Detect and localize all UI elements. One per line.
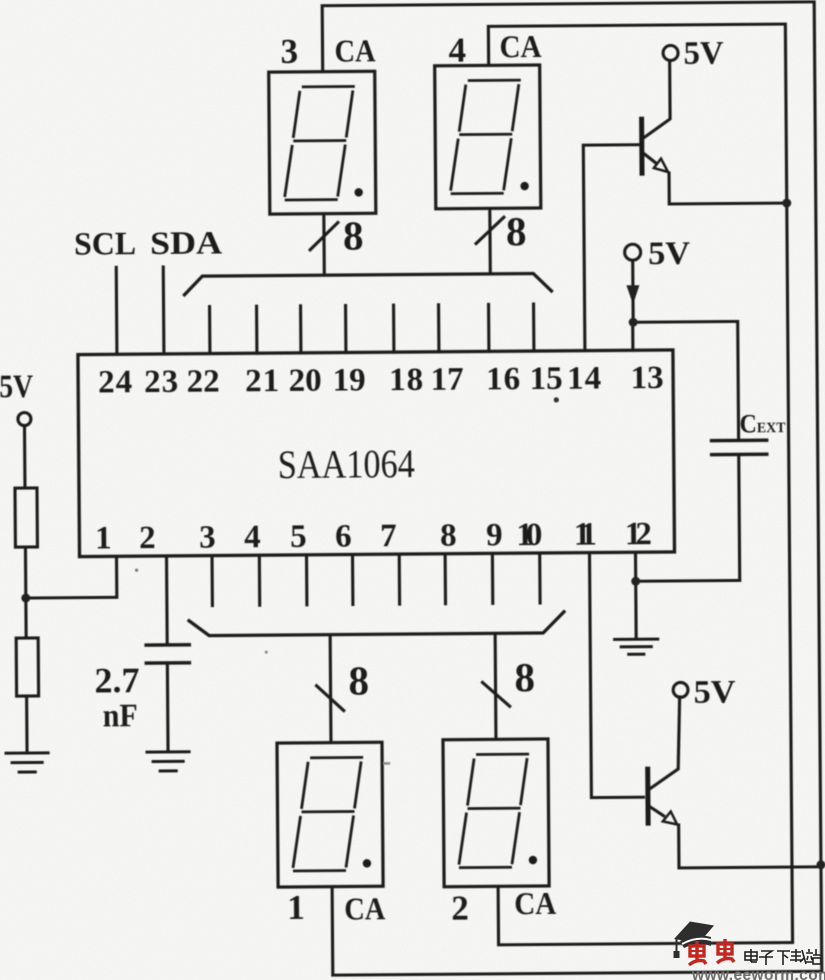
Q1 emitter with arrow	[643, 153, 656, 164]
svg-text:CA: CA	[499, 28, 541, 64]
wire: R2 to ground	[25, 696, 29, 751]
wire: pin12 node to CEXT bottom	[636, 579, 740, 583]
wire: pin 16 stub to top bus	[487, 304, 490, 351]
svg-text:8: 8	[440, 518, 457, 554]
bus width slash (8) display4	[476, 217, 504, 243]
wire: C1 to ground	[166, 663, 170, 750]
arrow into pin 13 node	[626, 285, 639, 304]
Q2 emitter with arrow	[650, 807, 663, 816]
display DS4 box	[435, 65, 541, 209]
svg-text:21: 21	[245, 363, 279, 399]
wire: pin 19 stub to top bus	[344, 306, 347, 353]
wire: pin 6 stub to bottom bus	[351, 556, 354, 604]
svg-text:15: 15	[529, 361, 562, 397]
ground GND1	[6, 753, 48, 772]
wire: pin 24 stub (SCL)	[115, 267, 119, 354]
svg-text:14: 14	[567, 361, 601, 397]
svg-text:23: 23	[144, 364, 178, 400]
svg-text:5V: 5V	[693, 674, 735, 710]
junction: Q2 emitter to CA1/CA3 rail	[816, 860, 825, 869]
wire: pin 11 down to transistor Q2 base	[590, 554, 644, 797]
wire: pin 7 stub to bottom bus	[398, 556, 401, 604]
IC U1 SAA1064 body	[78, 350, 675, 557]
svg-text:CA: CA	[344, 890, 385, 926]
svg-text:6: 6	[335, 518, 352, 554]
display DS2 box	[443, 739, 549, 887]
svg-text:4: 4	[244, 519, 261, 555]
svg-text:nF: nF	[103, 698, 138, 734]
svg-text:8: 8	[506, 208, 527, 254]
svg-text:20: 20	[288, 363, 321, 399]
resistor R2	[16, 638, 38, 696]
svg-text:24: 24	[98, 364, 132, 400]
transistor Q2 bar	[645, 769, 650, 823]
svg-text:17: 17	[430, 362, 463, 398]
capacitor C1 2.7nF plates	[146, 645, 189, 663]
svg-text:3: 3	[280, 32, 298, 71]
display DS3 box	[269, 71, 376, 214]
junction: node A (resistor divider / pin1)	[21, 594, 30, 603]
wire: R1 to node A	[24, 547, 28, 638]
svg-text:11: 11	[574, 517, 597, 553]
wire: pin 10 stub to bottom bus	[538, 555, 541, 603]
wire: pin 1 to resistor divider node	[26, 558, 117, 598]
wire: net CA1/CA3 top rail from display3 CA up, across top, down right side, along bottom to display1 CA	[322, 2, 822, 975]
svg-text:5: 5	[290, 519, 307, 555]
svg-text:18: 18	[389, 362, 423, 398]
5V supply V4 circle	[673, 682, 688, 697]
wire: display3 segment bus drop	[322, 214, 326, 275]
wire: display1 segment bus drop	[329, 635, 333, 743]
junction: Q1 emitter to CA2/CA4 rail	[782, 199, 791, 208]
junction: pin12/CEXT/ground	[631, 577, 640, 586]
svg-text:8: 8	[514, 654, 535, 700]
svg-text:8: 8	[348, 657, 369, 703]
svg-text:1: 1	[95, 520, 112, 556]
svg-text:5V: 5V	[0, 369, 33, 405]
5V supply V3 circle	[663, 45, 678, 60]
Q1 collector	[643, 60, 671, 138]
svg-text:2.7: 2.7	[94, 660, 139, 700]
Q2 collector	[649, 697, 681, 789]
svg-text:13: 13	[630, 360, 663, 396]
wire: pin 21 stub to top bus	[255, 306, 258, 353]
resistor R1	[15, 488, 37, 547]
svg-text:4: 4	[448, 31, 466, 70]
svg-text:22: 22	[187, 364, 220, 400]
display DS1 box	[277, 742, 383, 887]
5V supply V1 (left) circle	[18, 412, 31, 425]
wire: pin 18 stub to top bus	[392, 305, 395, 352]
svg-text:SCL: SCL	[74, 226, 136, 262]
wire: pin 14 to transistor Q1 base	[583, 145, 640, 351]
svg-text:1: 1	[287, 888, 305, 927]
digit in DS2	[458, 754, 537, 868]
watermark: graduation cap icon	[674, 922, 715, 959]
svg-text:9: 9	[486, 517, 503, 553]
wire: V1 to resistor R1	[23, 426, 27, 488]
svg-text:19: 19	[332, 362, 365, 398]
wire: V2 down to arrow	[631, 260, 634, 286]
wire: pin 22 stub to top bus	[208, 307, 211, 354]
watermark: red logo 虫虫	[689, 939, 734, 965]
capacitor CEXT plates	[712, 440, 767, 454]
svg-text:CA: CA	[514, 885, 556, 921]
wire: display4 segment bus drop	[488, 208, 492, 273]
wire: pin 15 stub to top bus	[532, 304, 535, 351]
wire: pin 17 stub to top bus	[437, 305, 440, 352]
digit in DS1	[292, 757, 371, 871]
ground GND2	[147, 752, 189, 771]
svg-text:16: 16	[486, 361, 520, 397]
watermark: 电子下载站 text (approximated glyphs)	[745, 949, 821, 965]
top bus (8-wire bundle)	[184, 273, 551, 294]
svg-text:3: 3	[199, 520, 216, 556]
wire: pin 5 stub to bottom bus	[305, 557, 308, 605]
bus width slash (8) display2	[483, 682, 510, 706]
wire: CEXT top to pin13 node	[633, 321, 739, 441]
digit in DS4	[450, 80, 529, 194]
wire: pin 4 stub to bottom bus	[258, 557, 261, 605]
scan speck artifacts	[554, 397, 559, 402]
bottom bus (8-wire bundle)	[189, 612, 564, 636]
junction: pin13/5V/CEXT	[629, 318, 638, 327]
svg-text:5V: 5V	[648, 236, 690, 272]
wire: display2 segment bus drop	[494, 633, 498, 739]
wire: pin 2 down to capacitor C1	[165, 558, 169, 645]
wire: pin 20 stub to top bus	[299, 306, 302, 353]
bus width slash (8) display3	[310, 223, 338, 250]
wire: pin 3 stub to bottom bus	[210, 558, 213, 606]
svg-text:12: 12	[625, 516, 652, 552]
wire: net CA2/CA4 rail from display4 CA up, across, down right, along bottom to display2 CA	[488, 24, 792, 945]
svg-text:2: 2	[139, 520, 156, 556]
svg-text:2: 2	[451, 889, 469, 928]
bus width slash (8) display1	[317, 686, 344, 711]
transistor Q1 bar	[639, 119, 644, 173]
digit in DS3	[284, 86, 363, 200]
wire: pin 13 stub to 5V node	[631, 322, 634, 350]
wire: pin 12 down to ground	[634, 554, 638, 639]
5V supply V2 (pin13) circle	[625, 244, 641, 260]
wire: pin 8 stub to bottom bus	[444, 556, 447, 604]
svg-text:8: 8	[343, 212, 364, 258]
svg-text:SAA1064: SAA1064	[278, 441, 415, 487]
wire: pin 23 stub (SDA)	[162, 267, 166, 354]
svg-text:10: 10	[516, 517, 542, 553]
svg-text:SDA: SDA	[150, 225, 222, 262]
wire: pin 9 stub to bottom bus	[491, 555, 494, 603]
ground GND3	[615, 639, 658, 654]
svg-text:7: 7	[380, 518, 397, 554]
svg-text:5V: 5V	[683, 36, 723, 72]
svg-text:www.eeworm.com: www.eeworm.com	[691, 967, 825, 980]
svg-text:CA: CA	[334, 32, 375, 68]
